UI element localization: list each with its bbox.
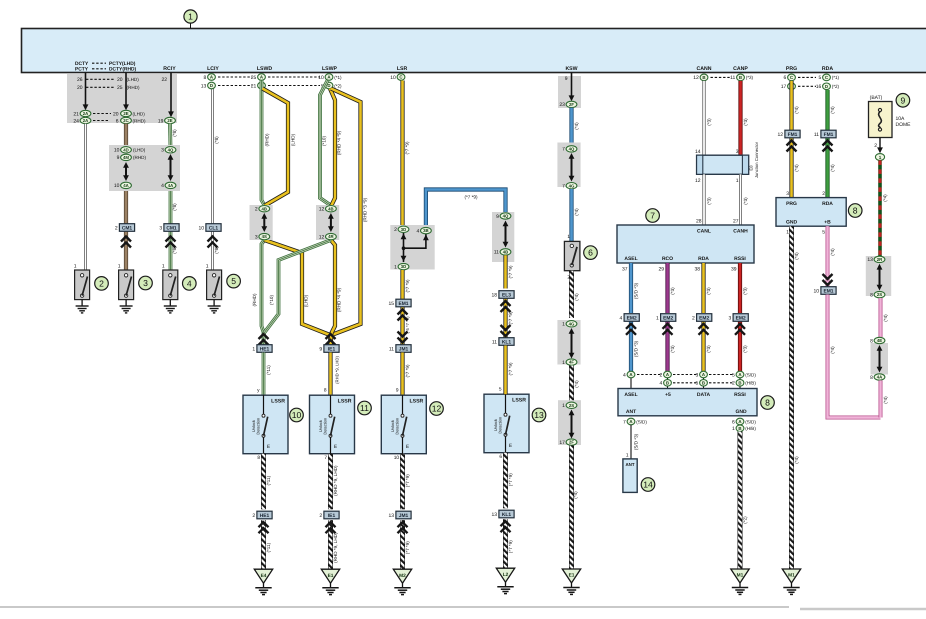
svg-text:4: 4	[623, 372, 626, 378]
svg-text:2: 2	[822, 191, 825, 197]
svg-text:11: 11	[730, 75, 735, 81]
svg-text:(RHD *9, LHD): (RHD *9, LHD)	[333, 532, 338, 563]
svg-text:(*7 *9): (*7 *9)	[405, 279, 410, 292]
svg-text:4A: 4A	[123, 183, 129, 188]
svg-text:LSSR: LSSR	[409, 399, 423, 405]
svg-text:LSSR: LSSR	[271, 399, 285, 405]
svg-text:10: 10	[199, 226, 205, 232]
svg-text:JM1: JM1	[399, 346, 409, 352]
svg-text:(RHD): (RHD)	[264, 133, 269, 146]
svg-text:4M: 4M	[123, 155, 129, 160]
svg-text:(LHD): (LHD)	[133, 111, 146, 116]
svg-text:(*2): (*2)	[334, 83, 342, 88]
svg-text:12: 12	[778, 132, 784, 138]
svg-text:PCTY(LHD): PCTY(LHD)	[109, 61, 136, 67]
svg-text:8: 8	[324, 388, 327, 394]
svg-text:(*7 *9): (*7 *9)	[508, 311, 513, 324]
svg-text:12: 12	[432, 404, 442, 414]
svg-text:E: E	[334, 444, 337, 450]
svg-text:KL1: KL1	[502, 339, 512, 345]
svg-text:2: 2	[255, 207, 258, 213]
svg-text:L2: L2	[503, 572, 509, 578]
svg-text:8: 8	[870, 338, 873, 344]
svg-text:13: 13	[534, 410, 544, 420]
svg-text:10: 10	[390, 75, 396, 81]
svg-text:4B: 4B	[328, 206, 334, 211]
svg-text:3B: 3B	[423, 228, 429, 233]
svg-text:(*4): (*4)	[794, 252, 799, 260]
svg-text:RCIY: RCIY	[163, 66, 176, 72]
svg-text:2F: 2F	[569, 440, 574, 445]
svg-text:4: 4	[620, 316, 623, 322]
svg-text:+5: +5	[665, 392, 671, 398]
svg-text:3: 3	[786, 191, 789, 197]
svg-text:12: 12	[319, 207, 325, 213]
svg-text:LSSR: LSSR	[338, 399, 352, 405]
svg-text:2E: 2E	[167, 118, 172, 123]
svg-text:EM2: EM2	[699, 315, 709, 321]
svg-text:Detection: Detection	[394, 418, 399, 435]
svg-text:(*3): (*3)	[706, 345, 711, 353]
svg-text:DCTY: DCTY	[75, 61, 89, 67]
svg-text:9: 9	[901, 95, 906, 105]
svg-text:(LHD): (LHD)	[127, 77, 140, 82]
svg-text:3D: 3D	[401, 264, 407, 269]
svg-text:2: 2	[319, 513, 322, 519]
svg-text:M2: M2	[399, 573, 406, 579]
svg-text:CM1: CM1	[122, 225, 133, 231]
svg-text:(*3): (*3)	[743, 197, 748, 205]
svg-text:RCO: RCO	[662, 256, 673, 262]
svg-text:1: 1	[206, 263, 209, 269]
svg-text:4G: 4G	[569, 321, 575, 326]
svg-text:(*7 *9): (*7 *9)	[405, 141, 410, 154]
svg-text:4Q: 4Q	[569, 147, 575, 152]
svg-text:(RHD): (RHD)	[133, 155, 146, 160]
svg-text:3: 3	[255, 234, 258, 240]
svg-text:2S: 2S	[877, 292, 882, 297]
svg-text:11: 11	[494, 250, 499, 256]
svg-text:26: 26	[77, 77, 83, 83]
svg-text:(RHD): (RHD)	[252, 293, 257, 306]
svg-text:ASEL: ASEL	[624, 392, 637, 398]
svg-text:4R: 4R	[328, 234, 334, 239]
svg-text:4: 4	[161, 183, 164, 189]
svg-text:PCTY: PCTY	[75, 67, 89, 73]
svg-text:13: 13	[492, 512, 498, 518]
svg-text:7: 7	[623, 419, 626, 425]
svg-text:(*11): (*11)	[266, 475, 271, 485]
svg-text:39: 39	[731, 266, 737, 272]
svg-text:(RHD): (RHD)	[133, 118, 146, 123]
svg-text:RSSI: RSSI	[734, 256, 746, 262]
svg-text:6: 6	[588, 248, 593, 258]
svg-text:(LHD): (LHD)	[290, 133, 295, 146]
svg-text:D: D	[825, 84, 828, 89]
svg-text:16: 16	[816, 84, 822, 90]
svg-text:ANT: ANT	[626, 409, 636, 415]
svg-text:11: 11	[492, 340, 497, 346]
svg-text:(*4): (*4)	[830, 346, 835, 354]
svg-text:(*7 *9): (*7 *9)	[508, 473, 513, 486]
svg-text:10: 10	[318, 75, 324, 81]
svg-text:(*4): (*4)	[883, 194, 888, 202]
svg-text:6: 6	[499, 454, 502, 460]
svg-text:10: 10	[114, 183, 120, 189]
svg-text:M1: M1	[788, 573, 795, 579]
svg-text:1: 1	[567, 234, 570, 240]
svg-text:E: E	[406, 444, 409, 450]
svg-text:4G: 4G	[569, 183, 575, 188]
svg-text:25: 25	[251, 75, 257, 81]
svg-text:1: 1	[736, 178, 739, 184]
svg-text:Detection: Detection	[497, 417, 502, 434]
svg-text:5: 5	[822, 229, 825, 235]
svg-text:(*7 *9): (*7 *9)	[405, 364, 410, 377]
svg-text:E4: E4	[261, 573, 267, 579]
svg-text:3: 3	[143, 278, 148, 288]
svg-text:10: 10	[394, 455, 400, 461]
svg-text:(S/D): (S/D)	[745, 419, 756, 424]
svg-text:(BAT): (BAT)	[870, 95, 883, 101]
svg-text:1: 1	[118, 263, 121, 269]
svg-text:1: 1	[786, 229, 789, 235]
svg-text:2F: 2F	[569, 102, 574, 107]
svg-text:DATA: DATA	[697, 392, 711, 398]
svg-text:IE1: IE1	[328, 513, 336, 519]
svg-text:12: 12	[319, 234, 325, 240]
svg-text:(*4): (*4)	[883, 396, 888, 404]
svg-text:CANN: CANN	[697, 66, 712, 72]
svg-text:3: 3	[159, 226, 162, 232]
svg-text:(*4): (*4)	[830, 248, 835, 256]
svg-text:11: 11	[360, 403, 369, 413]
svg-text:7: 7	[324, 455, 327, 461]
svg-text:(*4): (*4)	[574, 122, 579, 130]
svg-text:LSWD: LSWD	[257, 66, 273, 72]
svg-text:CANL: CANL	[697, 229, 711, 235]
svg-text:27: 27	[733, 219, 739, 225]
svg-text:1: 1	[732, 426, 735, 432]
svg-text:38: 38	[694, 266, 700, 272]
svg-text:(RHD *3 *9): (RHD *3 *9)	[362, 197, 367, 222]
svg-text:(*3): (*3)	[706, 287, 711, 295]
svg-text:Junction Connector: Junction Connector	[754, 141, 759, 178]
svg-text:22: 22	[161, 77, 167, 83]
svg-text:1: 1	[626, 453, 629, 459]
svg-text:2A: 2A	[83, 118, 89, 123]
svg-text:11: 11	[814, 132, 819, 138]
svg-text:13: 13	[201, 83, 207, 89]
svg-text:5: 5	[819, 75, 822, 81]
svg-text:2: 2	[732, 381, 735, 387]
svg-text:(*4): (*4)	[830, 164, 835, 172]
svg-text:2S: 2S	[569, 403, 574, 408]
svg-text:8: 8	[853, 206, 858, 216]
svg-text:12: 12	[693, 75, 699, 81]
svg-text:2: 2	[874, 143, 877, 149]
svg-text:E1: E1	[569, 573, 575, 579]
svg-text:E: E	[267, 444, 270, 450]
svg-text:9: 9	[565, 76, 568, 82]
svg-text:(*4): (*4)	[574, 293, 579, 301]
svg-text:10A: 10A	[896, 116, 906, 122]
svg-text:29: 29	[658, 266, 664, 272]
svg-text:(*8): (*8)	[214, 136, 219, 144]
svg-text:LSSR: LSSR	[512, 398, 526, 404]
svg-text:1: 1	[74, 263, 77, 269]
svg-text:(S/D *3): (S/D *3)	[634, 282, 639, 299]
svg-text:4: 4	[187, 278, 192, 288]
svg-text:6: 6	[116, 118, 119, 124]
svg-text:1: 1	[188, 12, 193, 22]
svg-text:KL1: KL1	[502, 512, 512, 518]
svg-text:4E: 4E	[877, 338, 882, 343]
svg-text:HE1: HE1	[260, 346, 270, 352]
svg-text:4B: 4B	[262, 206, 268, 211]
svg-text:25: 25	[117, 85, 123, 91]
svg-text:(*3): (*3)	[670, 287, 675, 295]
svg-text:(*7 *9): (*7 *9)	[405, 474, 410, 487]
svg-text:(*4): (*4)	[794, 106, 799, 114]
svg-text:FM1: FM1	[824, 132, 834, 138]
svg-text:KSW: KSW	[565, 66, 577, 72]
svg-text:DOME: DOME	[896, 122, 912, 128]
svg-text:1: 1	[656, 316, 659, 322]
svg-text:E: E	[509, 443, 512, 449]
svg-text:1: 1	[562, 360, 565, 366]
svg-text:(*11): (*11)	[266, 365, 271, 375]
svg-text:4A: 4A	[877, 375, 883, 380]
svg-text:7: 7	[562, 184, 565, 190]
svg-text:HE1: HE1	[260, 513, 270, 519]
svg-text:8: 8	[870, 375, 873, 381]
svg-text:EM1: EM1	[823, 288, 833, 294]
svg-text:4Q: 4Q	[503, 214, 509, 219]
svg-text:(*4): (*4)	[574, 380, 579, 388]
svg-text:2A: 2A	[83, 111, 89, 116]
svg-text:(*10): (*10)	[322, 136, 327, 146]
svg-text:9: 9	[496, 214, 499, 220]
svg-text:21: 21	[251, 83, 257, 89]
svg-text:1: 1	[562, 403, 565, 409]
svg-text:(RHD): (RHD)	[127, 85, 140, 90]
svg-text:(*1): (*1)	[832, 75, 840, 80]
svg-text:10: 10	[814, 289, 820, 295]
svg-text:(S/D *3): (S/D *3)	[634, 340, 639, 357]
svg-text:20: 20	[77, 85, 83, 91]
svg-text:(S/D): (S/D)	[636, 419, 647, 424]
svg-text:(*7 *9): (*7 *9)	[464, 194, 477, 199]
svg-text:(*3): (*3)	[746, 75, 754, 80]
svg-text:(*3): (*3)	[670, 345, 675, 353]
svg-text:RDA: RDA	[822, 66, 833, 72]
svg-text:(*11): (*11)	[266, 542, 271, 552]
svg-text:1: 1	[562, 322, 565, 328]
svg-text:(RHD *4 *9): (RHD *4 *9)	[337, 287, 342, 312]
svg-text:2E: 2E	[123, 111, 128, 116]
svg-text:4B: 4B	[503, 250, 509, 255]
svg-text:28: 28	[696, 219, 702, 225]
svg-text:9: 9	[117, 155, 120, 161]
svg-text:6: 6	[732, 419, 735, 425]
svg-text:(*4): (*4)	[794, 164, 799, 172]
svg-text:FM1: FM1	[788, 132, 798, 138]
svg-text:EL3: EL3	[502, 292, 511, 298]
svg-text:3: 3	[736, 149, 739, 155]
svg-text:1: 1	[162, 263, 165, 269]
svg-text:(*6 *7 *9): (*6 *7 *9)	[405, 316, 410, 334]
svg-text:EM2: EM2	[736, 315, 746, 321]
svg-text:4: 4	[417, 228, 420, 234]
svg-text:(*3): (*3)	[706, 118, 711, 126]
svg-text:9: 9	[319, 347, 322, 353]
svg-text:2: 2	[115, 226, 118, 232]
svg-text:11: 11	[389, 347, 394, 353]
svg-text:(*3): (*3)	[743, 287, 748, 295]
svg-text:(*4): (*4)	[574, 208, 579, 216]
svg-text:(*7 *9): (*7 *9)	[508, 362, 513, 375]
svg-text:GND: GND	[735, 409, 747, 415]
svg-text:JM1: JM1	[399, 513, 409, 519]
svg-text:5: 5	[231, 276, 236, 286]
svg-text:Detection: Detection	[255, 418, 260, 435]
svg-text:2: 2	[394, 227, 397, 233]
svg-text:2: 2	[660, 372, 663, 378]
svg-text:(*7 *9): (*7 *9)	[405, 541, 410, 554]
svg-text:24: 24	[73, 118, 79, 124]
svg-text:M1: M1	[737, 573, 744, 579]
svg-text:(H/B): (H/B)	[745, 381, 756, 386]
svg-text:2C: 2C	[123, 118, 129, 123]
svg-text:13: 13	[389, 513, 395, 519]
svg-text:D: D	[210, 83, 213, 88]
svg-text:4A: 4A	[168, 183, 174, 188]
svg-text:(*4): (*4)	[830, 106, 835, 114]
svg-text:19: 19	[158, 118, 164, 124]
svg-text:LSR: LSR	[397, 66, 408, 72]
svg-text:2R: 2R	[877, 257, 883, 262]
svg-text:2: 2	[692, 316, 695, 322]
svg-text:RDA: RDA	[822, 201, 833, 207]
svg-text:DCTY(RHD): DCTY(RHD)	[109, 67, 137, 73]
svg-text:(RHD *9, LHD): (RHD *9, LHD)	[333, 465, 338, 496]
svg-text:EM2: EM2	[663, 315, 673, 321]
svg-text:CANP: CANP	[733, 66, 748, 72]
svg-text:B: B	[738, 380, 741, 385]
svg-text:2: 2	[99, 278, 104, 288]
svg-text:(*3): (*3)	[706, 197, 711, 205]
svg-text:(RHD *9, LHD): (RHD *9, LHD)	[334, 356, 339, 384]
svg-text:(S/D *3): (S/D *3)	[633, 433, 638, 450]
svg-text:3D: 3D	[401, 227, 407, 232]
svg-text:(*4): (*4)	[883, 314, 888, 322]
svg-text:18: 18	[492, 293, 498, 299]
svg-text:4D: 4D	[123, 147, 129, 152]
svg-text:2: 2	[252, 513, 255, 519]
svg-text:12: 12	[695, 178, 701, 184]
svg-text:3: 3	[729, 316, 732, 322]
svg-text:CM1: CM1	[166, 225, 177, 231]
svg-text:23: 23	[559, 102, 565, 108]
svg-text:IE1: IE1	[328, 346, 336, 352]
svg-text:(*3): (*3)	[743, 118, 748, 126]
svg-text:PRG: PRG	[786, 66, 797, 72]
svg-text:5: 5	[499, 387, 502, 393]
svg-text:8: 8	[257, 455, 260, 461]
svg-text:B: B	[739, 75, 742, 80]
svg-text:21: 21	[73, 111, 79, 117]
svg-text:(*7 *9): (*7 *9)	[508, 540, 513, 553]
svg-text:14: 14	[695, 149, 701, 155]
svg-text:(*8): (*8)	[172, 203, 177, 211]
svg-text:(*4): (*4)	[794, 456, 799, 464]
svg-text:(*2): (*2)	[742, 516, 747, 524]
svg-text:Detection: Detection	[322, 418, 327, 435]
svg-text:CANH: CANH	[733, 229, 748, 235]
svg-text:PRG: PRG	[786, 201, 797, 207]
svg-text:EM2: EM2	[627, 315, 637, 321]
svg-text:B: B	[666, 380, 669, 385]
svg-text:ASEL: ASEL	[624, 256, 637, 262]
svg-text:B: B	[702, 380, 705, 385]
svg-text:RDA: RDA	[698, 256, 709, 262]
svg-text:8: 8	[765, 398, 770, 408]
svg-text:7: 7	[562, 147, 565, 153]
svg-text:9: 9	[396, 388, 399, 394]
svg-text:8: 8	[204, 75, 207, 81]
svg-text:4Q: 4Q	[168, 147, 174, 152]
svg-text:13: 13	[867, 257, 873, 263]
svg-text:4: 4	[660, 381, 663, 387]
svg-text:1: 1	[394, 264, 397, 270]
svg-text:3: 3	[161, 148, 164, 154]
svg-text:B: B	[702, 75, 705, 80]
svg-text:20: 20	[113, 111, 119, 117]
svg-text:CL1: CL1	[209, 225, 219, 231]
svg-text:10: 10	[114, 148, 120, 154]
svg-text:EM1: EM1	[398, 301, 408, 307]
svg-text:ANT: ANT	[625, 462, 634, 467]
svg-text:17: 17	[559, 440, 565, 446]
svg-text:(S/D): (S/D)	[745, 372, 756, 377]
svg-text:(*1): (*1)	[334, 75, 342, 80]
svg-text:(LHD): (LHD)	[304, 294, 309, 307]
svg-text:10: 10	[292, 410, 302, 420]
svg-text:1: 1	[252, 347, 255, 353]
svg-text:(*2): (*2)	[832, 84, 840, 89]
svg-text:6: 6	[784, 75, 787, 81]
svg-text:(*3): (*3)	[743, 345, 748, 353]
svg-text:(*10): (*10)	[269, 295, 274, 305]
svg-text:15: 15	[389, 301, 395, 307]
svg-text:(*7 *9): (*7 *9)	[508, 265, 513, 278]
svg-text:20: 20	[117, 77, 123, 83]
svg-text:5: 5	[696, 381, 699, 387]
svg-text:37: 37	[622, 266, 628, 272]
svg-text:14: 14	[643, 480, 653, 490]
svg-text:(H/B): (H/B)	[745, 426, 756, 431]
svg-text:5: 5	[732, 372, 735, 378]
svg-text:B: B	[738, 426, 741, 431]
svg-text:4F: 4F	[569, 360, 574, 365]
svg-text:GND: GND	[786, 219, 798, 225]
svg-text:E1: E1	[328, 573, 334, 579]
svg-text:17: 17	[781, 84, 787, 90]
svg-text:(RHD *4 *9): (RHD *4 *9)	[337, 130, 342, 155]
svg-text:LSWP: LSWP	[322, 66, 338, 72]
svg-text:7: 7	[650, 211, 655, 221]
